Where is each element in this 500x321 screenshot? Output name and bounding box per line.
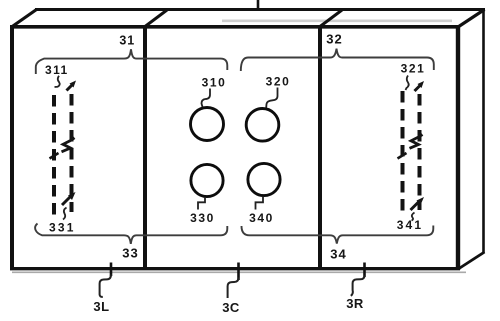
svg-text:321: 321 [401,61,426,75]
mid squiggle right panel [410,135,423,149]
circle 330 (bottom-left speaker) [191,164,223,196]
label 31 [119,33,135,47]
svg-text:34: 34 [330,247,346,262]
box front bottom edge [10,267,460,270]
leader 311 squiggle [55,76,60,87]
svg-text:3R: 3R [346,296,364,311]
box top right corner diagonal [458,10,485,28]
label 3L [93,299,109,314]
arrow bottom-right panel [411,197,425,210]
box back right edge [482,9,485,253]
brace 31 (overbrace left) [36,49,228,74]
circle 310 (top-left speaker) [191,108,224,141]
brace 33 (underbrace left) [35,224,227,244]
leader tick 3L [110,263,113,277]
box top back edge [35,8,485,11]
label 320 [266,75,291,89]
svg-text:331: 331 [49,220,76,234]
svg-text:330: 330 [190,211,215,225]
dashed column D (right panel) [418,94,422,210]
box top left corner diagonal [12,10,37,28]
circle 340 (bottom-right speaker) [248,163,280,195]
label 33 [122,246,138,261]
label 331 [49,220,76,234]
label 3R [346,296,364,311]
leader 320 [266,88,277,108]
leader tick 3C [237,263,240,281]
divider 1 top face diagonal [145,10,167,27]
svg-text:341: 341 [397,218,424,232]
label 340 [249,211,274,225]
divider 1 (left/center panel) [143,26,147,268]
leader tick 3R [363,263,366,278]
arrow bottom-left panel [62,192,76,205]
arrow top-right panel [415,81,425,91]
label 321 [401,61,426,75]
leader 310 [202,89,211,108]
dashed column C (right panel) [401,91,405,216]
leader 330 [198,197,205,210]
arrow top-left panel [67,81,77,91]
label 3C [222,300,240,315]
mid squiggle left panel [62,138,75,152]
svg-text:3C: 3C [222,300,240,315]
divider 2 top face diagonal [320,10,342,27]
box bottom right corner diagonal [459,252,485,269]
dashed column B (left panel) [70,94,74,212]
curl above 341 [412,213,415,221]
svg-text:311: 311 [45,63,69,77]
tick on column A [50,153,59,159]
leader 3 top [257,0,260,10]
tick on column C [398,153,407,159]
box front right edge [456,25,460,270]
box front top edge [10,25,460,29]
svg-text:320: 320 [266,75,291,89]
box front left edge [10,25,14,270]
dashed column A (left panel) [52,95,56,216]
svg-text:310: 310 [202,76,227,90]
circle 320 (top-right speaker) [246,109,279,142]
label 34 [330,247,346,262]
leader 340 [256,197,264,210]
top face faint line [222,19,452,22]
leader 3L path [100,275,111,297]
svg-text:3L: 3L [93,299,109,314]
svg-text:340: 340 [249,211,274,225]
curl above 331 [63,208,67,220]
label 311 [45,63,69,77]
svg-text:32: 32 [326,31,342,46]
label 310 [202,76,227,90]
leader 3R path [351,276,365,296]
svg-text:31: 31 [119,33,135,47]
svg-text:33: 33 [122,246,138,261]
label 341 [397,218,424,232]
leader 3C path [228,278,239,299]
divider 2 (center/right panel) [318,26,322,268]
leader 321 squiggle [406,76,409,91]
brace 34 (underbrace right) [242,226,434,244]
label 32 [326,31,342,46]
brace 32 (overbrace right) [241,49,434,71]
label 330 [190,211,215,225]
bottom faint gray line [12,271,466,273]
